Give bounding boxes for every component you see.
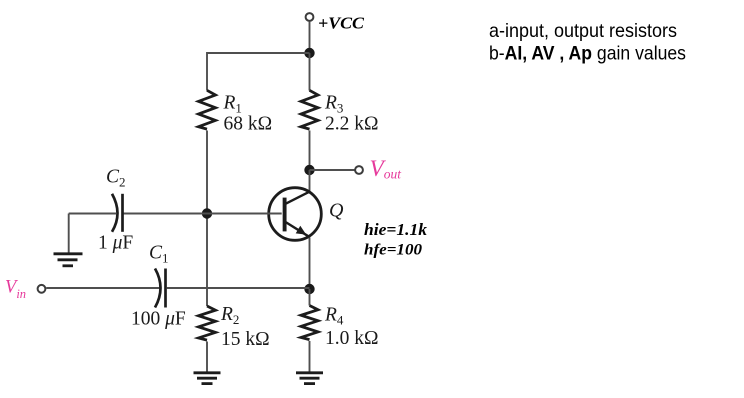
ground under R2 xyxy=(194,373,221,384)
svg-text:1 μF: 1 μF xyxy=(98,233,133,254)
transistor Q1 collector diagonal xyxy=(286,191,311,204)
junction dot emitter node xyxy=(304,284,314,294)
capacitor C2 curved plate xyxy=(112,194,118,232)
wire collector node to Vout terminal xyxy=(310,169,355,171)
svg-text:100 μF: 100 μF xyxy=(131,309,186,330)
svg-text:+VCC: +VCC xyxy=(318,14,365,33)
resistor R4 xyxy=(301,306,318,340)
wire left ground stub xyxy=(68,214,70,253)
wire R2 bottom lead xyxy=(206,342,208,372)
resistor R2 xyxy=(199,306,216,340)
capacitor C1 curved plate xyxy=(155,269,161,308)
capacitor C2 flat plate xyxy=(121,194,124,232)
svg-text:68 kΩ: 68 kΩ xyxy=(224,114,273,135)
ground under R4 xyxy=(296,373,323,384)
resistor R1 xyxy=(199,90,216,129)
wire base node to transistor base xyxy=(207,213,282,215)
wire C2 right plate to base node xyxy=(124,213,208,215)
svg-text:15 kΩ: 15 kΩ xyxy=(221,329,270,350)
svg-text:Q: Q xyxy=(329,200,344,222)
transistor Q1 emitter diagonal xyxy=(286,222,311,237)
capacitor C1 flat plate xyxy=(164,269,167,308)
wire R3 bottom to collector node xyxy=(309,131,311,171)
terminal +VCC open circle xyxy=(306,13,314,21)
wire R1 bottom to base node and on to R2 xyxy=(206,131,208,307)
terminal Vin open circle xyxy=(38,285,46,293)
svg-text:hfe=100: hfe=100 xyxy=(364,242,422,259)
wire Vin terminal to C1 xyxy=(46,287,159,289)
svg-text:2.2 kΩ: 2.2 kΩ xyxy=(325,114,379,135)
wire C2 left to stub xyxy=(69,213,117,215)
junction dot collector node xyxy=(304,165,314,175)
wire collector vertical lead xyxy=(309,170,311,192)
svg-text:b-AI, AV , Ap gain values: b-AI, AV , Ap gain values xyxy=(489,43,686,65)
wire C1 right plate to emitter node xyxy=(167,287,310,289)
svg-text:1.0 kΩ: 1.0 kΩ xyxy=(325,328,379,349)
wire VCC node down to R3 xyxy=(309,53,311,91)
terminal Vout open circle xyxy=(355,166,363,174)
junction dot base node xyxy=(202,208,212,218)
wire VCC node horizontal to R1 branch xyxy=(207,52,310,54)
wire emitter vertical lead to emitter node xyxy=(309,238,311,290)
transistor Q1 circle xyxy=(269,188,322,241)
resistor R3 xyxy=(301,90,318,129)
wire emitter node to R4 xyxy=(309,289,311,306)
wire VCC terminal to junction xyxy=(309,22,311,54)
junction dot VCC node xyxy=(304,48,314,58)
svg-text:hie=1.1k: hie=1.1k xyxy=(364,220,428,239)
transistor Q1 emitter arrowhead xyxy=(296,226,307,235)
wire R1 top lead xyxy=(206,52,208,91)
transistor Q1 base bar xyxy=(283,198,287,232)
ground left (C2) xyxy=(54,254,83,266)
wire R4 bottom lead xyxy=(309,341,311,372)
svg-text:a-input, output resistors: a-input, output resistors xyxy=(489,20,677,42)
